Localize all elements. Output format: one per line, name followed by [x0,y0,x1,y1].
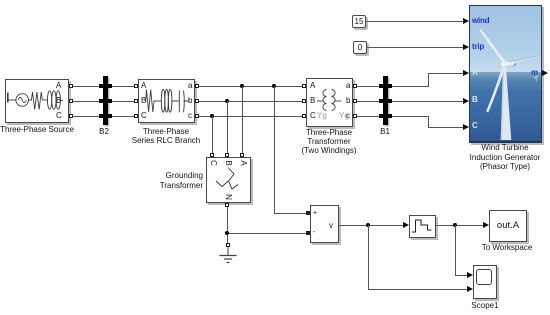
wire: drop C to grounding transformer [212,116,213,154]
voltage measurement - port [306,231,310,235]
label B2 [99,127,109,136]
wire: to scope input 2 [368,289,468,290]
distant turbine [534,75,539,81]
bus bar B1 [383,76,388,125]
B2 left port A [99,84,103,88]
label Transformer [307,137,350,146]
turbine port label trip [472,43,484,51]
wire: branch down to scope input 2 [368,225,369,289]
transformer port label a [346,82,350,90]
turbine port label A [472,69,478,77]
RLC right port a [195,84,199,88]
nacelle [501,62,515,67]
turbine port label C [472,122,478,130]
transformer left port A [302,84,306,88]
turbine output label m [531,69,538,77]
transformer winding label Yg left [317,112,327,120]
RLC port label b [188,97,192,105]
grounding transformer top port B [225,153,229,157]
voltage measurement v label [329,222,333,230]
wire: neutral to voltage measurement - [229,233,306,234]
constant 0 text [358,43,362,52]
ground block port [226,243,230,247]
B1 right port C [388,114,392,118]
out.A text [497,221,519,230]
source port label B [56,97,61,105]
junction node phase A to voltmeter [272,84,276,88]
scope screen [476,269,492,285]
constant 15 text [355,17,364,26]
RLC port label B [141,97,146,105]
wire: drop A to voltage measurement + [274,86,275,214]
wire: grounding transformer N down [227,207,228,244]
RLC left port A [134,84,138,88]
wire A: vertical bend up [428,73,429,87]
arrowhead scope input 2 [467,286,473,292]
transformer icon windings [307,79,352,126]
wire B: B1 to turbine port B [390,101,464,102]
voltage measurement - label [313,229,315,237]
arrowhead turbine port B [463,98,469,104]
label Grounding [161,171,203,180]
wire A: bend to turbine port A [428,73,464,74]
sky [470,6,541,72]
three-phase series RLC branch block [138,79,195,123]
RLC left port C [134,114,138,118]
transformer left port C [302,114,306,118]
wire A: B1 to bend [390,86,429,87]
label (Phasor Type) [480,162,530,171]
blade up-left [479,29,505,64]
B1 left port C [379,114,383,118]
grounding transformer port label C [208,159,218,167]
transformer right port c [353,114,357,118]
RLC left port B [134,99,138,103]
source port C [69,114,73,118]
transformer right port b [353,99,357,103]
B1 right port B [388,99,392,103]
zero-order hold block [409,215,436,238]
B2 right port A [108,84,112,88]
B2 right port C [108,114,112,118]
grounding transformer zigzag icon [207,158,250,202]
RLC right port c [195,114,199,118]
label B1 [380,127,390,136]
transformer port label B [310,97,315,105]
ground symbol [218,247,238,265]
wire C: RLC to transformer [197,116,304,117]
three-phase source block [5,79,69,123]
arrowhead turbine port A [463,70,469,76]
blade right [506,56,538,65]
RLC branch icon [139,80,194,122]
label (Two Windings) [301,146,356,155]
wire: to scope input 1 [455,275,468,276]
label Three-Phase Source [0,125,74,134]
transformer port label C [310,112,316,120]
wire: constant 0 to trip port [367,47,464,48]
B2 left port C [99,114,103,118]
voltage measurement + label [313,210,317,218]
arrowhead to-workspace input [483,222,489,228]
junction node phase A drop [240,84,244,88]
label Three-Phase [143,127,189,136]
label Wind Turbine [481,143,528,152]
grounding transformer block [206,157,251,203]
wire: to + port [274,213,306,214]
B1 left port B [379,99,383,103]
wire C: transformer to B1 [355,116,381,117]
turbine port label wind [472,17,489,25]
transformer winding label Yg right [339,112,349,120]
label Series RLC Branch [132,136,200,145]
junction node v out [366,223,370,227]
wire: branch down to scope input 1 [455,225,456,275]
transformer port label A [310,82,315,90]
transformer right port a [353,84,357,88]
wire C: source to B2 [71,116,101,117]
grounding transformer port label N [223,193,233,201]
wire: drop A to grounding transformer [242,86,243,154]
wire C: B1 to bend [390,116,429,117]
wire A: transformer to B1 [355,86,381,87]
RLC right port b [195,99,199,103]
grounding transformer port label B [223,159,233,167]
wind turbine block [469,5,542,143]
grounding transformer port label A [238,159,248,167]
wire B: RLC to transformer [197,101,304,102]
to workspace block out.A [489,210,527,242]
wire: voltmeter v output [339,225,405,226]
scope block [473,265,497,299]
arrowhead zero-order-hold input [403,222,409,228]
label Three-Phase [306,128,352,137]
junction node neutral [225,231,229,235]
wire: drop B to grounding transformer [227,101,228,154]
wire: constant 15 to wind port [366,21,464,22]
RLC port label C [141,112,147,120]
grounding transformer top port C [210,153,214,157]
junction node phase C drop [210,114,214,118]
constant block 15 [352,15,366,28]
RLC port label a [188,82,192,90]
source port label C [56,112,62,120]
label Induction Generator [470,153,541,162]
label Scope1 [471,301,498,310]
junction node phase B drop [225,99,229,103]
wire A: B2 to RLC [110,86,136,87]
wire C: B2 to RLC [110,116,136,117]
transformer port label c [346,112,350,120]
label Transformer [154,181,203,190]
bus bar B2 [103,76,108,125]
B2 right port B [108,99,112,103]
wire A: RLC to transformer [197,86,304,87]
tower [501,67,512,141]
transformer port label b [346,97,350,105]
arrowhead wind port [463,18,469,24]
wire A: source to B2 [71,86,101,87]
wire B: B2 to RLC [110,101,136,102]
B1 right port A [388,84,392,88]
grounding transformer top port A [240,153,244,157]
three-phase source icon [6,80,68,122]
wire B: transformer to B1 [355,101,381,102]
turbine port label B [472,96,478,104]
wire C: bend to turbine port C [428,127,464,128]
wire: zero-order-hold to out.A [436,225,484,226]
arrowhead trip port [463,44,469,50]
zero-order hold staircase icon [410,216,435,237]
source port label A [56,82,61,90]
wire B: source to B2 [71,101,101,102]
source port B [69,99,73,103]
voltage measurement + port [306,211,310,215]
three-phase transformer block [306,78,353,127]
turbine output port m mark [542,70,548,76]
label To Workspace [482,243,533,252]
B1 left port A [379,84,383,88]
RLC port label c [188,112,192,120]
grounding transformer bottom port N [225,203,229,207]
source port A [69,84,73,88]
arrowhead turbine port C [463,124,469,130]
B2 left port B [99,99,103,103]
voltage measurement block [310,205,339,243]
wire C: vertical bend down [428,116,429,128]
blade down-left [486,65,505,113]
ocean [470,72,541,141]
junction node zoh out [453,223,457,227]
arrowhead scope input 1 [467,272,473,278]
constant block 0 [353,41,367,54]
transformer left port B [302,99,306,103]
RLC port label A [141,82,146,90]
